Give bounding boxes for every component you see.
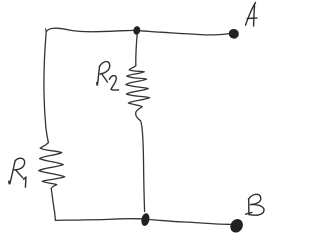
wire top (left corner to junction) xyxy=(46,28,133,32)
wire left-bottom lead xyxy=(51,189,55,221)
junction node bottom xyxy=(140,213,150,227)
junction node top xyxy=(133,25,141,35)
label B xyxy=(248,199,250,215)
wire junction to resistor R2 xyxy=(136,34,137,66)
wire R2 bottom lead xyxy=(136,112,145,212)
wire left xyxy=(44,32,48,143)
wire bottom (junction to terminal B) xyxy=(150,220,231,225)
resistor R1 xyxy=(39,143,65,189)
wire bottom (corner to junction) xyxy=(55,219,141,221)
label A xyxy=(246,3,256,26)
terminal node B xyxy=(228,217,246,235)
wire top (junction to terminal A) xyxy=(141,31,230,35)
corner tick top-left xyxy=(45,29,47,32)
label R2 xyxy=(97,66,100,85)
resistor R2 xyxy=(126,66,150,112)
terminal node A xyxy=(227,28,240,41)
label R1 xyxy=(9,160,15,183)
